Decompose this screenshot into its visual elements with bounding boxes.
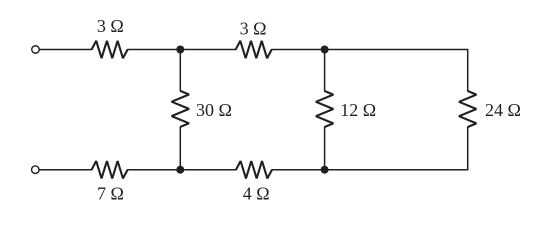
node D junction dot bottom-right bbox=[321, 166, 329, 174]
wire branch R6 down to node D bbox=[324, 127, 326, 170]
wire bottom: right corner to R5 bbox=[272, 169, 468, 171]
resistor R1 3ohm top-left zigzag bbox=[92, 41, 128, 58]
resistor R7 24ohm vertical zigzag bbox=[459, 91, 476, 127]
wire bottom-left: R4 to terminal bbox=[39, 169, 91, 171]
wire right side top: corner down to R7 bbox=[467, 50, 469, 92]
node C junction dot bottom-left bbox=[176, 166, 184, 174]
terminal T1 top-left open circle bbox=[32, 46, 40, 54]
svg-text:7 Ω: 7 Ω bbox=[97, 183, 124, 203]
wire branch node B down to R6 bbox=[324, 50, 326, 92]
resistor R3 30ohm vertical zigzag bbox=[172, 91, 189, 127]
svg-text:3 Ω: 3 Ω bbox=[240, 19, 267, 39]
svg-text:4 Ω: 4 Ω bbox=[243, 183, 270, 203]
resistor R4 7ohm bottom-left zigzag bbox=[92, 161, 128, 178]
wire top-left: terminal to R1 bbox=[39, 49, 91, 51]
wire branch node A down to R3 bbox=[179, 50, 181, 91]
wire top: R1 to node A bbox=[128, 49, 236, 51]
svg-text:30 Ω: 30 Ω bbox=[196, 100, 232, 120]
node B junction dot top-right bbox=[321, 46, 329, 54]
wire right side bottom: R7 to bottom corner bbox=[467, 127, 469, 170]
wire top: R2 to right corner bbox=[272, 49, 468, 51]
resistor R2 3ohm top-middle zigzag bbox=[236, 41, 272, 58]
svg-text:12 Ω: 12 Ω bbox=[340, 100, 376, 120]
wire bottom: R5 to R4 bbox=[128, 169, 236, 171]
svg-text:24 Ω: 24 Ω bbox=[485, 100, 521, 120]
resistor R5 4ohm bottom-middle zigzag bbox=[236, 161, 272, 178]
node A junction dot top-left bbox=[176, 46, 184, 54]
terminal T2 bottom-left open circle bbox=[32, 166, 40, 174]
wire branch R3 down to node C bbox=[179, 127, 181, 170]
svg-text:3 Ω: 3 Ω bbox=[97, 16, 124, 36]
resistor R6 12ohm vertical zigzag bbox=[316, 91, 333, 127]
